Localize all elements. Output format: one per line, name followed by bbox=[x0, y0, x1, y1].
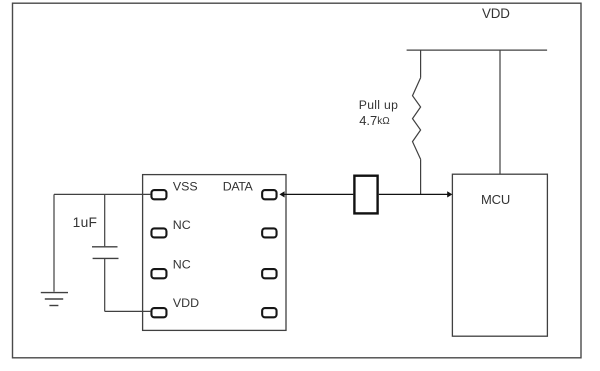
svg-text:NC: NC bbox=[173, 258, 191, 272]
ground bbox=[41, 292, 68, 294]
svg-text:Pull up: Pull up bbox=[359, 98, 398, 112]
svg-text:MCU: MCU bbox=[481, 192, 510, 207]
wire: down to ground bbox=[53, 194, 55, 291]
pin 1 VSS bbox=[151, 190, 166, 199]
MCU U2 box bbox=[452, 174, 547, 336]
wire: rail to MCU top bbox=[499, 50, 501, 174]
arrowhead into DATA pin bbox=[279, 191, 284, 197]
svg-text:VSS: VSS bbox=[173, 180, 198, 194]
pin 4 VDD bbox=[151, 308, 166, 317]
wire: VDD power rail bbox=[407, 49, 547, 51]
arrowhead into MCU bbox=[447, 191, 452, 197]
wire: capacitor bottom to VDD pin bbox=[105, 310, 151, 312]
series element box bbox=[354, 176, 377, 214]
resistor R1 pull-up 4.7k zigzag bbox=[413, 78, 421, 159]
svg-text:1uF: 1uF bbox=[73, 215, 98, 230]
wire: rail to resistor R1 top bbox=[420, 50, 422, 78]
wire: series element to MCU bbox=[379, 193, 449, 195]
svg-text:4.7kΩ: 4.7kΩ bbox=[359, 113, 390, 128]
svg-text:DATA: DATA bbox=[223, 180, 254, 194]
pin 5 bbox=[262, 308, 276, 317]
sensor IC U1 body bbox=[143, 175, 286, 331]
pin 2 NC bbox=[151, 228, 166, 237]
pin 3 NC bbox=[151, 269, 166, 278]
svg-text:VDD: VDD bbox=[173, 296, 199, 310]
pin 7 bbox=[262, 228, 276, 237]
pin 8 DATA bbox=[262, 190, 276, 199]
pin 6 bbox=[262, 269, 276, 278]
wire: DATA pin to series element bbox=[282, 193, 353, 195]
svg-text:NC: NC bbox=[173, 218, 191, 232]
wire: resistor R1 bottom to DATA node bbox=[420, 159, 422, 194]
svg-text:VDD: VDD bbox=[482, 6, 510, 21]
wire: VSS pin to capacitor/ground node bbox=[54, 193, 150, 195]
capacitor C1 plates bbox=[92, 246, 118, 248]
capacitor C1 top lead bbox=[104, 194, 106, 246]
capacitor C1 bottom lead bbox=[104, 258, 106, 311]
